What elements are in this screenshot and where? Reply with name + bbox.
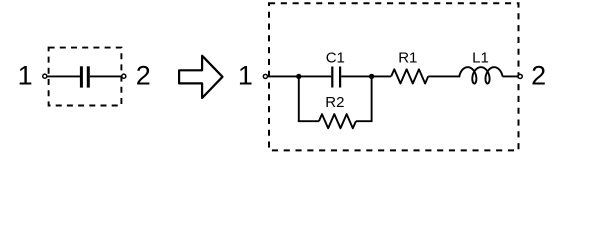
wire up to node B bbox=[371, 76, 373, 122]
arrow (transformation) bbox=[179, 56, 222, 98]
resistor R1 bbox=[391, 69, 428, 83]
svg-text:2: 2 bbox=[136, 61, 151, 91]
dashed box (left circuit) bbox=[49, 48, 122, 106]
wire node A down (R2 branch) bbox=[298, 76, 300, 122]
terminal 1 (right circuit) bbox=[263, 74, 267, 78]
junction node A bbox=[296, 74, 301, 79]
svg-text:R1: R1 bbox=[398, 49, 417, 66]
dashed box (right circuit) bbox=[269, 3, 519, 150]
junction node B bbox=[369, 74, 374, 79]
svg-text:R2: R2 bbox=[325, 94, 344, 111]
wire R2 to bottom right bbox=[356, 120, 373, 122]
svg-text:C1: C1 bbox=[326, 49, 345, 66]
terminal 1 (left circuit) bbox=[43, 74, 47, 78]
capacitor (left circuit) right plate bbox=[87, 66, 90, 87]
wire R1 to L1 bbox=[428, 75, 460, 77]
inductor L1 bbox=[459, 67, 502, 83]
wire node A to C1 bbox=[299, 75, 331, 77]
wire bottom left to R2 bbox=[298, 120, 319, 122]
svg-text:L1: L1 bbox=[472, 49, 489, 66]
wire C1 to node B bbox=[341, 75, 371, 77]
capacitor C1 right plate bbox=[339, 67, 341, 88]
wire L1 to terminal 2 bbox=[502, 75, 518, 77]
svg-text:2: 2 bbox=[531, 61, 546, 91]
wire terminal1 to node A bbox=[268, 75, 299, 77]
capacitor C1 left plate bbox=[331, 67, 333, 88]
resistor R2 bbox=[319, 114, 356, 128]
svg-text:1: 1 bbox=[238, 61, 253, 91]
capacitor (left circuit) left plate bbox=[80, 66, 83, 87]
wire node B to R1 bbox=[372, 75, 392, 77]
wire capacitor to terminal2 bbox=[90, 75, 122, 77]
terminal 2 (right circuit) bbox=[518, 74, 522, 78]
wire terminal1 to capacitor bbox=[47, 75, 80, 77]
terminal 2 (left circuit) bbox=[122, 74, 126, 78]
svg-text:1: 1 bbox=[18, 61, 33, 91]
